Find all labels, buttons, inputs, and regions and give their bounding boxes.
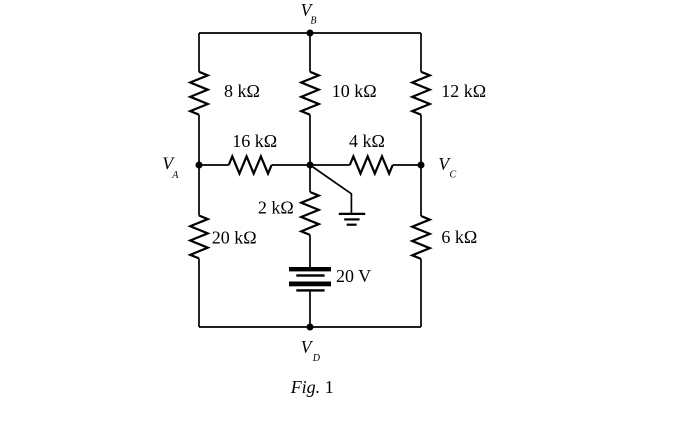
svg-text:B: B: [310, 16, 316, 27]
svg-text:Fig. 1: Fig. 1: [290, 377, 334, 397]
wire bottom rail: [199, 326, 421, 328]
resistor R8 2k: [301, 192, 319, 235]
svg-text:12 kΩ: 12 kΩ: [441, 81, 486, 101]
resistor R7 6k: [412, 216, 430, 259]
svg-text:A: A: [171, 170, 179, 181]
wire middle rail left: [199, 164, 229, 166]
wire top rail: [199, 32, 421, 34]
svg-text:16 kΩ: 16 kΩ: [232, 131, 277, 151]
resistor R5 16k: [229, 156, 272, 173]
svg-text:20 V: 20 V: [336, 266, 371, 286]
svg-text:D: D: [312, 353, 321, 364]
svg-text:8 kΩ: 8 kΩ: [224, 81, 260, 101]
wire middle rail center-right: [310, 164, 350, 166]
wire center node to 2k: [309, 165, 311, 192]
ground wire diagonal: [310, 165, 351, 213]
wire middle branch top: [309, 33, 311, 72]
svg-text:4 kΩ: 4 kΩ: [349, 131, 385, 151]
wire 2k to battery: [309, 235, 311, 267]
wire right branch middle: [420, 115, 422, 165]
wire right branch top: [420, 33, 422, 72]
node VC dot: [418, 162, 425, 169]
node VA dot: [196, 162, 203, 169]
svg-text:10 kΩ: 10 kΩ: [332, 81, 377, 101]
wire left branch middle: [198, 115, 200, 165]
node VB dot: [307, 30, 314, 37]
resistor R3 12k: [412, 72, 430, 115]
resistor R2 10k: [301, 72, 319, 115]
resistor R1 8k: [190, 72, 208, 115]
svg-text:2 kΩ: 2 kΩ: [258, 197, 294, 217]
wire right branch lower: [420, 165, 422, 216]
svg-text:C: C: [450, 169, 457, 180]
node VD dot: [307, 324, 314, 331]
wire middle rail center-left: [272, 164, 310, 166]
svg-text:6 kΩ: 6 kΩ: [441, 227, 477, 247]
battery V1 20V: [289, 267, 331, 292]
wire middle rail right: [393, 164, 421, 166]
wire battery to bottom rail: [309, 292, 311, 327]
resistor R4 20k: [190, 216, 208, 259]
wire left branch bottom: [198, 258, 200, 327]
svg-text:20 kΩ: 20 kΩ: [212, 228, 257, 248]
resistor R6 4k: [350, 156, 393, 173]
wire left branch top: [198, 33, 200, 72]
node center dot: [307, 162, 314, 169]
wire right branch bottom: [420, 259, 422, 327]
ground symbol: [339, 214, 365, 225]
wire middle branch to center node: [309, 115, 311, 165]
wire left branch lower: [198, 165, 200, 216]
